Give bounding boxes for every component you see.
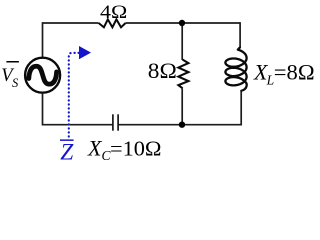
label Z overbar bbox=[60, 139, 74, 141]
wire right branch top bbox=[239, 22, 241, 48]
svg-text:=8Ω: =8Ω bbox=[274, 59, 315, 84]
resistor R 4ohm bbox=[99, 19, 126, 27]
source sine wave bbox=[29, 66, 57, 84]
wire top rail right segment bbox=[126, 22, 241, 24]
label XC=10ohm bbox=[87, 135, 162, 163]
capacitor XC left plate bbox=[112, 114, 114, 130]
inductor XL coil bbox=[225, 48, 246, 91]
wire middle branch bottom bbox=[181, 88, 183, 124]
wire left branch top bbox=[42, 22, 44, 57]
label VS overbar bbox=[6, 61, 19, 63]
wire middle branch top bbox=[181, 23, 183, 60]
svg-text:=10Ω: =10Ω bbox=[110, 136, 162, 160]
wire bottom rail right segment bbox=[119, 124, 242, 126]
node junction dot bottom bbox=[179, 122, 185, 128]
impedance arrow head bbox=[79, 46, 91, 59]
resistor R 8ohm bbox=[178, 60, 188, 89]
capacitor XC right plate bbox=[117, 114, 119, 130]
wire bottom rail left segment bbox=[43, 124, 113, 126]
source VS circle bbox=[25, 58, 60, 93]
node junction dot top bbox=[179, 20, 185, 26]
svg-text:4Ω: 4Ω bbox=[100, 2, 127, 23]
wire top rail left segment bbox=[43, 22, 99, 24]
impedance arrow Z dotted path bbox=[69, 53, 79, 137]
svg-text:8Ω: 8Ω bbox=[148, 58, 177, 83]
wire right branch bottom bbox=[240, 91, 242, 126]
svg-text:S: S bbox=[12, 76, 19, 90]
wire left branch bottom bbox=[42, 93, 44, 126]
label XL=8ohm bbox=[253, 59, 315, 87]
svg-text:Z: Z bbox=[60, 139, 74, 165]
